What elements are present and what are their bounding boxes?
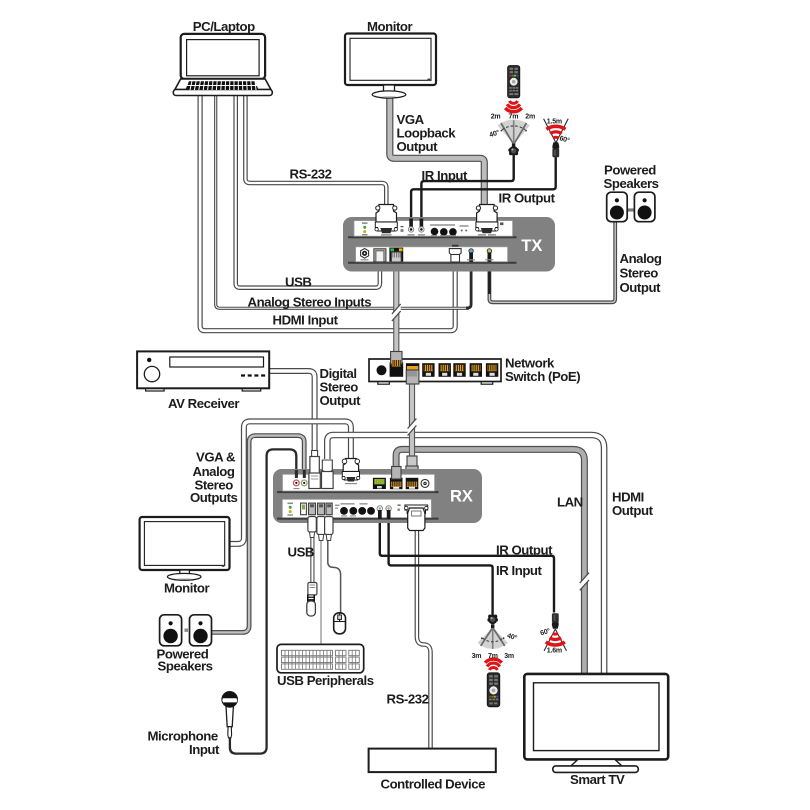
network switch PoE	[369, 359, 501, 384]
RX rear mic jack (pink) with plug	[293, 470, 299, 489]
cable break switch-RX	[408, 419, 417, 436]
TX dip/service marks	[460, 225, 469, 231]
RX front LEDs	[288, 503, 294, 516]
switch port 2 with RX plug	[406, 363, 419, 384]
svg-text:LAN: LAN	[557, 495, 583, 510]
RX rear VGA out DB15 with plug	[342, 459, 360, 485]
svg-text:2m: 2m	[525, 113, 535, 120]
mouse	[334, 613, 346, 634]
TX icon between	[401, 226, 404, 227]
wire mouse cable	[328, 514, 341, 613]
RJ45 plug into RX (from switch)	[406, 456, 418, 479]
IR receiver cone (top)	[498, 120, 530, 145]
svg-text:Switch (PoE): Switch (PoE)	[505, 369, 580, 384]
monitor (left, RX VGA)	[140, 517, 230, 580]
wire Analog Stereo Inputs (laptop to TX)	[216, 94, 469, 308]
RX front tiny icon	[398, 505, 401, 511]
wire ethernet switch to RX	[409, 382, 415, 458]
svg-text:Smart TV: Smart TV	[570, 772, 625, 787]
RX front IR out jack with plug	[377, 506, 382, 519]
RX rear coax connector	[421, 479, 429, 487]
wire IR Output (RX to emitter)	[380, 515, 554, 613]
svg-text:Stereo: Stereo	[620, 266, 659, 281]
RX unit body	[273, 469, 482, 523]
svg-text:7m: 7m	[488, 653, 498, 660]
wire ethernet TX to switch	[393, 261, 399, 353]
svg-text:3m: 3m	[504, 653, 514, 660]
RX rear optical digital out with plug	[309, 451, 320, 489]
wire VGA output (RX to monitor)	[229, 421, 351, 544]
svg-text:IR Output: IR Output	[496, 543, 553, 558]
RX front USB plugged x3	[309, 503, 333, 515]
TX rear DC jack	[361, 249, 369, 261]
USB flash drive on cable	[307, 583, 317, 617]
RX rear audio out jack with plug	[301, 470, 307, 486]
TX IR IN jack (right) with plug	[418, 219, 425, 236]
IR waves above bottom remote	[485, 659, 502, 670]
IR emitter unit (bottom)	[552, 613, 559, 629]
wire TX line-in jack cable to analog stereo inputs line	[466, 258, 471, 308]
svg-text:TX: TX	[521, 237, 542, 255]
Controlled Device box	[369, 749, 496, 773]
powered speakers (top right)	[607, 192, 655, 222]
svg-text:AV Receiver: AV Receiver	[168, 396, 239, 411]
RX rear LAN port (empty, green)	[373, 478, 386, 489]
svg-text:Analog: Analog	[620, 251, 662, 266]
svg-text:Speakers: Speakers	[604, 176, 659, 191]
IR receiver unit (bottom)	[487, 615, 498, 629]
wire LAN (RX to Smart TV)	[396, 449, 584, 674]
RX front USB empty port	[301, 503, 307, 515]
wire analog stereo output TX to powered speakers	[489, 221, 615, 302]
svg-text:Monitor: Monitor	[164, 581, 210, 596]
svg-text:Output: Output	[620, 280, 662, 295]
wire IR Input (receiver to TX)	[421, 153, 513, 222]
svg-text:RS-232: RS-232	[290, 167, 332, 182]
TX VGA loopback connector with plug	[476, 205, 499, 236]
svg-text:Controlled Device: Controlled Device	[381, 777, 486, 792]
svg-text:2m: 2m	[491, 113, 501, 120]
TX icon right	[500, 223, 503, 226]
svg-text:RX: RX	[450, 488, 473, 506]
svg-text:USB: USB	[285, 275, 312, 290]
TX rear line-in jack (blue)	[467, 249, 475, 262]
svg-text:7m: 7m	[509, 113, 519, 120]
svg-text:USB: USB	[288, 545, 315, 560]
svg-text:RS-232: RS-232	[387, 692, 429, 707]
cable break LAN	[580, 573, 589, 591]
svg-text:1.6m: 1.6m	[547, 648, 562, 655]
svg-text:IR Input: IR Input	[422, 168, 469, 183]
Smart TV	[524, 674, 668, 773]
svg-text:USB Peripherals: USB Peripherals	[277, 673, 374, 688]
TX IR OUT jack (left) with plug	[408, 219, 415, 236]
TX rear HDMI port with plug	[449, 245, 461, 262]
RX rear LAN out port with plug (to TV)	[390, 467, 403, 490]
svg-text:1.5m: 1.5m	[547, 118, 562, 125]
AV receiver	[137, 351, 269, 391]
svg-text:HDMI Input: HDMI Input	[273, 312, 339, 327]
IR emitter unit (top)	[552, 142, 559, 157]
TX audio input RCA jacks	[430, 224, 457, 236]
microphone	[222, 692, 237, 738]
svg-text:Output: Output	[320, 393, 362, 408]
svg-text:3m: 3m	[472, 653, 482, 660]
remote control (top)	[508, 66, 520, 98]
RX front USB plug bodies below	[308, 517, 333, 541]
RX front RCA jacks x4	[340, 503, 375, 516]
wire RS-232 (RX to Controlled Device)	[417, 528, 431, 749]
svg-text:Outputs: Outputs	[190, 490, 238, 505]
RX rear HDMI out port with plug	[322, 460, 334, 489]
laptop PC/Laptop	[173, 34, 272, 96]
TX RS-232 DB9 connector with plug	[375, 205, 398, 236]
TX rear RJ45 port with plug	[389, 248, 403, 262]
IR emitter fan (bottom)	[544, 629, 566, 651]
RX front tiny marks	[335, 505, 340, 509]
svg-text:IR Input: IR Input	[496, 563, 543, 578]
TX rear USB-B port with plug	[374, 249, 386, 262]
svg-text:Analog Stereo Inputs: Analog Stereo Inputs	[248, 294, 372, 309]
wire HDMI Output (RX to Smart TV)	[327, 435, 604, 674]
IR receiver unit (top)	[508, 144, 519, 156]
wire microphone input to RX	[230, 449, 296, 753]
svg-text:Input: Input	[189, 742, 220, 757]
TX rear line-out jack (green)	[485, 249, 493, 262]
powered speakers (left)	[160, 615, 212, 646]
switch RJ45 ports 3-7	[422, 363, 498, 377]
cable break TX-switch	[392, 304, 401, 321]
remote control (bottom)	[487, 673, 500, 707]
wire USB (laptop to TX)	[236, 94, 380, 288]
svg-text:Monitor: Monitor	[367, 19, 413, 34]
TX front LEDs	[362, 222, 368, 235]
wire black plug tail TX jack2	[488, 258, 491, 294]
svg-text:IR Output: IR Output	[499, 191, 556, 206]
TX unit body	[343, 217, 555, 272]
monitor (top, VGA loopback)	[345, 34, 436, 99]
svg-text:Output: Output	[397, 139, 439, 154]
IR receiver cone (bottom)	[478, 628, 508, 649]
RX front RS-232 DB9 with plug below	[405, 505, 428, 531]
IR emitter fan (top)	[544, 119, 569, 143]
svg-text:PC/Laptop: PC/Laptop	[193, 19, 255, 34]
IR waves below top remote	[505, 101, 522, 112]
wire Digital Stereo Output (AV receiver to RX)	[269, 371, 315, 456]
wire analog stereo output RX to powered speakers	[211, 436, 304, 633]
wire keyboard cable	[320, 514, 322, 644]
wire IR Output (TX to emitter)	[411, 155, 556, 222]
wire IR Input (remote to RX)	[389, 515, 493, 615]
wire HDMI Input (laptop to TX)	[200, 94, 455, 331]
wire RS-232 (laptop to TX)	[245, 94, 386, 207]
svg-text:Output: Output	[612, 503, 654, 518]
svg-text:VGA &: VGA &	[196, 450, 236, 465]
USB peripherals keyboard	[277, 644, 364, 672]
RX rear port from switch with plug	[406, 478, 419, 489]
wire USB stick cable	[310, 514, 314, 583]
wire VGA Loopback Output (monitor to TX)	[390, 96, 485, 207]
RX front IR in jack with plug	[386, 506, 391, 519]
switch port 1 with TX plug	[390, 352, 404, 377]
svg-text:Speakers: Speakers	[158, 659, 213, 674]
